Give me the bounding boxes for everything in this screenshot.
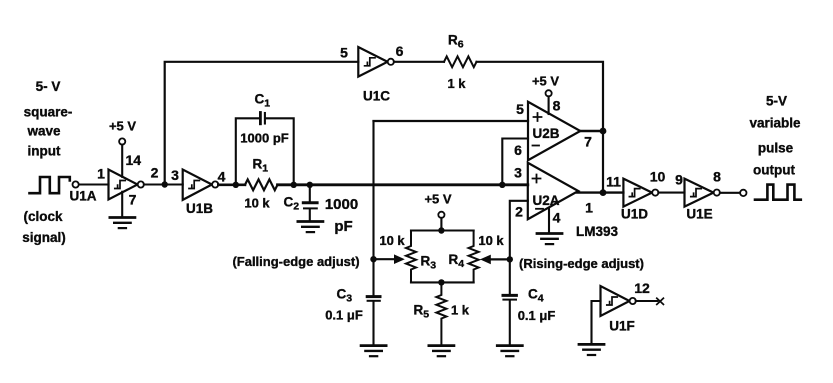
junction C4 node bbox=[507, 256, 513, 262]
wire +5V to top rail bbox=[440, 218, 442, 231]
U2A minus sign bbox=[536, 208, 543, 210]
wire pin8 bbox=[548, 96, 550, 114]
wire U1F input to ground bbox=[592, 301, 601, 343]
svg-text:R3: R3 bbox=[421, 254, 437, 272]
resistor R1 bbox=[245, 179, 278, 190]
svg-text:+5 V: +5 V bbox=[109, 119, 136, 134]
U2B plus sign bbox=[534, 113, 542, 121]
svg-text:C3: C3 bbox=[337, 287, 353, 305]
junction top rail bbox=[438, 227, 444, 233]
svg-text:(Rising-edge adjust): (Rising-edge adjust) bbox=[519, 256, 644, 271]
svg-text:wave: wave bbox=[26, 124, 61, 139]
resistor R4 bbox=[469, 231, 479, 283]
inverter U1D bbox=[623, 179, 652, 207]
capacitor C1 loop wires bbox=[236, 118, 294, 185]
svg-text:R4: R4 bbox=[449, 252, 465, 270]
+5V terminal U2B pin8 bbox=[546, 90, 552, 96]
svg-text:5-V: 5-V bbox=[766, 94, 787, 109]
svg-text:LM393: LM393 bbox=[576, 224, 619, 239]
wire U1B out bbox=[218, 184, 245, 187]
junction bottom rail bbox=[438, 279, 444, 285]
ground C2 bbox=[298, 222, 323, 233]
svg-text:U1F: U1F bbox=[609, 319, 635, 334]
svg-text:14: 14 bbox=[126, 152, 142, 168]
svg-text:R1: R1 bbox=[253, 157, 269, 175]
svg-text:+5 V: +5 V bbox=[532, 74, 559, 89]
svg-text:2: 2 bbox=[151, 165, 159, 181]
svg-text:(clock: (clock bbox=[23, 209, 63, 224]
U2A plus sign bbox=[533, 175, 541, 183]
input terminal circle bbox=[73, 181, 79, 187]
svg-text:0.1 μF: 0.1 μF bbox=[518, 308, 556, 323]
svg-text:0.1 μF: 0.1 μF bbox=[325, 308, 363, 323]
inverter U1F bbox=[601, 286, 630, 316]
svg-text:11: 11 bbox=[606, 174, 621, 190]
R3 wiper arrow bbox=[374, 258, 396, 260]
svg-text:(Falling-edge adjust): (Falling-edge adjust) bbox=[232, 254, 359, 269]
svg-text:U2B: U2B bbox=[533, 126, 560, 141]
comparator U2B bbox=[528, 102, 580, 160]
+5V terminal R3R4 bbox=[438, 212, 444, 218]
svg-text:1 k: 1 k bbox=[447, 76, 466, 91]
junction C1 right bbox=[291, 182, 297, 188]
wire node2 up to U1C input bbox=[165, 62, 359, 185]
junction C3 node bbox=[370, 256, 376, 262]
wire U2A output to U1D bbox=[577, 191, 623, 193]
svg-text:1: 1 bbox=[585, 200, 593, 216]
svg-text:1 k: 1 k bbox=[451, 303, 470, 318]
svg-text:square-: square- bbox=[24, 105, 73, 120]
wire R1 right / main node bbox=[278, 183, 528, 186]
svg-text:1000 pF: 1000 pF bbox=[240, 131, 288, 146]
svg-text:4: 4 bbox=[218, 169, 226, 185]
svg-text:signal): signal) bbox=[22, 230, 66, 245]
junction C1 left bbox=[233, 182, 239, 188]
resistor R5 bbox=[436, 282, 446, 344]
ground R5 bbox=[429, 346, 454, 357]
wire U2B pin6 bbox=[502, 139, 528, 185]
svg-text:R5: R5 bbox=[414, 303, 430, 321]
svg-text:10 k: 10 k bbox=[379, 233, 405, 248]
svg-text:U2A: U2A bbox=[533, 193, 560, 208]
resistor R3 bbox=[406, 231, 416, 283]
svg-text:C4: C4 bbox=[528, 287, 544, 305]
+5V terminal U1A pin14 bbox=[119, 138, 125, 144]
capacitor C3 bbox=[367, 295, 380, 298]
output pulse glyph bbox=[755, 185, 801, 200]
wire U1F output bbox=[636, 300, 658, 302]
wire U1D out to U1E bbox=[658, 192, 684, 194]
svg-text:8: 8 bbox=[553, 98, 561, 114]
svg-text:3: 3 bbox=[514, 165, 522, 181]
wire U1A out to U1B in bbox=[144, 183, 183, 185]
inverter U1A bbox=[109, 170, 138, 200]
svg-text:2: 2 bbox=[515, 204, 523, 220]
svg-text:U1B: U1B bbox=[186, 201, 213, 216]
wire pin7 bbox=[121, 192, 123, 216]
ground U2A bbox=[537, 234, 562, 245]
wire pin14 bbox=[121, 145, 123, 177]
svg-text:9: 9 bbox=[675, 172, 683, 188]
x mark U1F output bbox=[657, 298, 664, 304]
svg-text:7: 7 bbox=[584, 134, 592, 150]
svg-text:U1A: U1A bbox=[69, 189, 96, 204]
svg-text:C1: C1 bbox=[255, 92, 271, 110]
svg-text:variable: variable bbox=[749, 116, 801, 131]
resistor R6 bbox=[444, 56, 477, 67]
svg-text:5: 5 bbox=[516, 101, 524, 117]
svg-text:6: 6 bbox=[514, 142, 522, 158]
svg-text:U1E: U1E bbox=[686, 207, 712, 222]
inverter U1E bbox=[685, 179, 714, 207]
capacitor C1 plates bbox=[259, 113, 262, 124]
svg-text:12: 12 bbox=[634, 280, 650, 296]
wire U2A pin4 bbox=[548, 208, 550, 232]
svg-text:5- V: 5- V bbox=[36, 79, 61, 94]
junction U2B out bbox=[600, 128, 607, 135]
ground U1A bbox=[110, 218, 135, 229]
top rail R3 R4 bbox=[411, 229, 474, 231]
svg-text:4: 4 bbox=[553, 210, 561, 226]
output terminal circle bbox=[740, 190, 746, 196]
ground U1F bbox=[579, 344, 604, 355]
svg-text:10 k: 10 k bbox=[244, 196, 270, 211]
svg-text:6: 6 bbox=[396, 43, 404, 59]
input square-wave glyph bbox=[30, 177, 70, 193]
R4 wiper arrow bbox=[489, 258, 510, 260]
wire input to U1A bbox=[79, 183, 109, 185]
wire U2B output bbox=[580, 130, 603, 132]
capacitor C4 bbox=[503, 294, 516, 297]
wire U1E out bbox=[720, 192, 740, 194]
svg-text:input: input bbox=[28, 144, 61, 159]
wire U2B pin5 threshold bbox=[374, 120, 529, 122]
node 2/3 junction bbox=[162, 181, 168, 187]
svg-text:pulse: pulse bbox=[758, 141, 794, 156]
bottom rail R3 R4 bbox=[411, 281, 474, 283]
svg-text:3: 3 bbox=[171, 167, 179, 183]
svg-text:U1C: U1C bbox=[363, 89, 390, 104]
svg-text:output: output bbox=[753, 163, 795, 178]
svg-text:8: 8 bbox=[713, 169, 721, 185]
wire U2A pin2 bbox=[510, 201, 528, 295]
svg-text:1000: 1000 bbox=[325, 196, 358, 213]
comparator U2A bbox=[528, 163, 579, 219]
wire U1C out to R6 bbox=[394, 61, 444, 63]
svg-text:C2: C2 bbox=[284, 195, 300, 213]
capacitor C2 bbox=[309, 185, 311, 201]
svg-text:10: 10 bbox=[650, 169, 666, 185]
junction C2 bbox=[307, 182, 313, 188]
svg-text:pF: pF bbox=[334, 218, 352, 235]
junction U2A out bbox=[600, 189, 607, 196]
junction pin6 node bbox=[499, 182, 505, 188]
svg-text:U1D: U1D bbox=[621, 207, 648, 222]
wire pin5 down to C3 node bbox=[372, 121, 374, 296]
svg-text:10 k: 10 k bbox=[478, 233, 504, 248]
svg-text:1: 1 bbox=[97, 166, 105, 182]
svg-text:+5 V: +5 V bbox=[424, 192, 451, 207]
svg-text:5: 5 bbox=[340, 45, 348, 61]
ground C4 bbox=[497, 346, 522, 357]
svg-text:7: 7 bbox=[129, 192, 137, 208]
svg-text:R6: R6 bbox=[448, 33, 464, 51]
U2B minus sign bbox=[533, 145, 540, 147]
wire R6 right down to comparator outputs bbox=[477, 62, 604, 193]
ground C3 bbox=[361, 346, 386, 357]
inverter U1B bbox=[183, 170, 212, 200]
inverter U1C bbox=[358, 47, 387, 77]
